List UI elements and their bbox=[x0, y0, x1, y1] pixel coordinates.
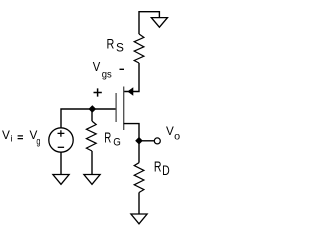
ground (under RG) bbox=[84, 175, 100, 185]
svg-text:R: R bbox=[154, 159, 162, 175]
svg-text:gs: gs bbox=[102, 68, 112, 80]
svg-text:R: R bbox=[104, 130, 111, 147]
wire source bottom to ground bbox=[60, 152, 62, 174]
plus sign inside source bbox=[58, 130, 65, 137]
wire top-left loop: source top to gate bbox=[61, 109, 116, 128]
svg-text:R: R bbox=[107, 36, 115, 52]
minus sign (Vgs) bbox=[120, 68, 125, 70]
ground (left, under source) bbox=[53, 175, 69, 185]
resistor RS zigzag bbox=[134, 34, 144, 63]
resistor RG zigzag bbox=[86, 121, 96, 151]
voltage source V1 circle bbox=[49, 128, 73, 152]
svg-text:i: i bbox=[11, 134, 13, 144]
svg-text:S: S bbox=[116, 43, 124, 55]
transistor Q1 gate bar bbox=[115, 93, 117, 122]
resistor RD zigzag bbox=[134, 163, 144, 193]
svg-text:V: V bbox=[93, 60, 101, 74]
svg-text:G: G bbox=[113, 136, 121, 148]
svg-text:V: V bbox=[166, 124, 174, 138]
ground (bottom right) bbox=[131, 214, 147, 224]
wire Vo node down to RD bbox=[138, 141, 140, 163]
transistor Q1 source arrow bbox=[128, 88, 133, 95]
node Vo junction dot bbox=[136, 138, 142, 144]
wire node G down to RG bbox=[91, 109, 93, 121]
svg-text:D: D bbox=[162, 162, 170, 178]
svg-text:V: V bbox=[2, 128, 10, 142]
node G junction dot bbox=[89, 106, 95, 112]
wire RS bottom to transistor source lead bbox=[124, 63, 139, 92]
transistor Q1 channel bar bbox=[123, 87, 125, 131]
plus sign (Vgs) bbox=[94, 88, 102, 96]
transistor Q1 drain lead to output node bbox=[124, 124, 139, 141]
wire RG bottom to ground bbox=[91, 151, 93, 175]
minus sign inside source bbox=[58, 146, 64, 148]
ground (top right) bbox=[151, 18, 167, 28]
svg-text:g: g bbox=[36, 137, 40, 148]
wire node Vo to output terminal bbox=[139, 140, 154, 142]
output terminal circle bbox=[154, 138, 160, 144]
wire RD bottom to ground bbox=[138, 193, 140, 215]
wire top ground hook bbox=[139, 12, 159, 34]
svg-text:o: o bbox=[174, 132, 180, 143]
